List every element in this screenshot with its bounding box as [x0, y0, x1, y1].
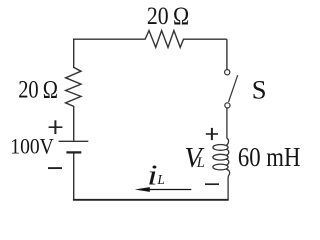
svg-text:20 Ω: 20 Ω [18, 74, 58, 103]
svg-text:L: L [156, 172, 165, 187]
svg-text:20 Ω: 20 Ω [147, 1, 189, 30]
svg-text:S: S [252, 76, 267, 105]
svg-text:i: i [147, 159, 158, 191]
svg-text:60 mH: 60 mH [238, 142, 301, 173]
svg-text:100V: 100V [10, 133, 54, 158]
svg-text:L: L [196, 155, 205, 171]
